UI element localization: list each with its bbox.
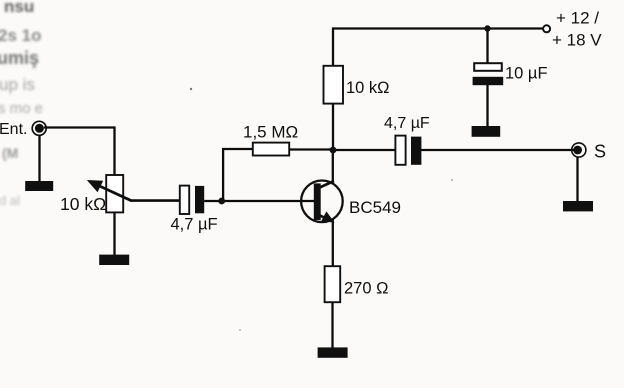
capacitor C1 4.7uF input plate right: [195, 186, 204, 213]
capacitor C3 10uF bottom plate: [473, 77, 504, 85]
scan speck: [239, 329, 241, 331]
capacitor C1 4.7uF input plate left: [180, 186, 189, 214]
node base junction: [218, 198, 225, 205]
scan bleed text fragment row2: [0, 26, 41, 46]
wire supply rail: [333, 27, 543, 29]
ground emitter: [318, 347, 348, 357]
terminal supply +: [543, 25, 550, 32]
svg-text:1,5 MΩ: 1,5 MΩ: [243, 123, 298, 142]
ground 10uF: [472, 126, 501, 137]
terminal Ent outer: [32, 121, 46, 135]
transistor Q1 collector stroke: [319, 181, 335, 188]
ground pot: [99, 255, 129, 265]
scan bleed text fragment row3: [0, 48, 39, 69]
capacitor C2 4.7uF output plate right: [411, 137, 421, 165]
wire output cap to S: [421, 149, 575, 151]
svg-text:4,7 µF: 4,7 µF: [384, 115, 430, 132]
scan bleed text fragment row4: [0, 75, 35, 95]
wire collector vertical: [332, 149, 334, 185]
svg-text:BC549: BC549: [349, 198, 401, 217]
transistor Q1 BC549 circle: [301, 181, 343, 223]
resistor R 1.5M (feedback): [253, 143, 289, 156]
capacitor C3 10uF top plate: [474, 63, 502, 71]
wire S ground lead: [576, 157, 578, 202]
svg-text:Ent.: Ent.: [0, 121, 27, 138]
wire 10k top lead: [332, 27, 334, 65]
capacitor C2 4.7uF output plate left: [395, 136, 405, 165]
potentiometer P1 wiper arrow: [96, 184, 132, 200]
wire 10uF bottom lead: [486, 85, 488, 128]
svg-text:S: S: [594, 142, 606, 162]
wire Ent to pot top: [44, 128, 115, 176]
resistor R 10k (collector): [324, 66, 344, 104]
wire 270 bottom lead: [331, 302, 333, 349]
wire base: [204, 200, 315, 202]
wire 10k bottom lead: [332, 104, 334, 151]
node supply junction: [484, 25, 490, 31]
svg-text:270 Ω: 270 Ω: [344, 280, 388, 298]
scan bleed text fragment row1: [4, 0, 34, 17]
wire pot wiper to cap: [131, 199, 181, 202]
terminal S outer: [572, 143, 586, 157]
svg-text:4,7 µF: 4,7 µF: [171, 216, 218, 234]
wire pot bottom lead: [113, 212, 115, 256]
wire 1.5M left lead and drop: [223, 149, 253, 201]
svg-text:10 kΩ: 10 kΩ: [60, 194, 106, 214]
svg-text:10 kΩ: 10 kΩ: [346, 79, 390, 97]
scan bleed text fragment row6: [2, 145, 18, 161]
svg-text:+ 12 /: + 12 /: [556, 9, 599, 28]
scan speck: [451, 179, 453, 181]
resistor R 270 (emitter): [325, 266, 341, 302]
scan bleed text fragment row7: [0, 193, 20, 208]
scan bleed text fragment row5: [0, 100, 43, 117]
svg-text:+ 18 V: + 18 V: [552, 31, 602, 50]
ground Ent: [25, 181, 53, 191]
wire emitter vertical: [332, 219, 334, 267]
scan speck: [190, 88, 192, 90]
potentiometer P1 10k body: [106, 175, 123, 212]
wire collector to output cap: [333, 149, 395, 151]
ground S: [563, 201, 593, 211]
wire Ent ground lead: [38, 135, 40, 182]
transistor Q1 base bar: [314, 183, 321, 220]
transistor Q1 emitter arrowhead: [321, 211, 334, 222]
wire 10uF top lead: [486, 27, 488, 64]
wire 1.5M right lead: [289, 148, 333, 150]
terminal Ent inner: [35, 124, 44, 133]
node collector junction: [330, 147, 337, 154]
transistor Q1 emitter stroke: [319, 215, 330, 220]
svg-text:10 µF: 10 µF: [505, 65, 548, 83]
terminal S inner: [573, 146, 582, 155]
